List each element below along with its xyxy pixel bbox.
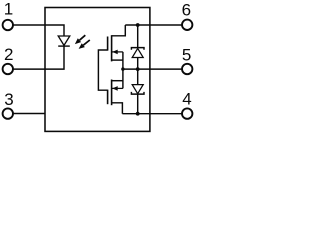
transistor Q1 channel	[111, 35, 113, 61]
svg-text:5: 5	[182, 46, 191, 65]
zener D3 top lead	[137, 69, 139, 85]
junction pin5 wire / zener bus	[136, 67, 140, 71]
light arrow lower	[83, 40, 90, 45]
LED D1 triangle	[58, 36, 70, 45]
Q1 source/body vertical	[122, 52, 124, 69]
transistor Q2 channel	[111, 80, 113, 106]
Q2 body stub with arrow	[112, 87, 123, 89]
svg-text:1: 1	[4, 0, 13, 18]
Q1 source stub	[112, 59, 123, 61]
zener D3 bottom lead	[137, 94, 139, 114]
junction pin4 wire / zener bus	[136, 112, 140, 116]
transistor Q1 gate bar	[107, 37, 109, 51]
junction pin6 wire / zener bus	[136, 23, 140, 27]
pin 3 terminal	[3, 108, 13, 118]
light arrow upper	[80, 35, 86, 40]
LED D1 cathode bar	[58, 45, 70, 47]
zener diode D2 triangle	[132, 48, 143, 57]
zener D2 top lead	[137, 25, 139, 48]
wire pin2 to LED cathode	[13, 46, 64, 69]
zener diode D2 cathode bar	[131, 48, 144, 50]
pin 6 terminal	[182, 20, 192, 30]
Q1 drain stub	[112, 25, 126, 36]
junction pin5 wire / source vertical	[121, 67, 124, 70]
Q2 source stub	[112, 80, 123, 82]
zener diode D3 cathode bar	[131, 92, 144, 94]
Q1 body stub with arrow	[112, 51, 123, 53]
svg-text:3: 3	[4, 90, 13, 109]
wire pin4	[122, 113, 182, 115]
pin 1 terminal	[3, 20, 13, 30]
zener diode D3 triangle	[132, 85, 143, 94]
package outline box	[45, 8, 150, 132]
svg-text:6: 6	[182, 0, 191, 19]
pin 4 terminal	[182, 108, 192, 118]
gate bus	[98, 50, 107, 90]
wire pin3 stub to package	[13, 113, 45, 115]
zener D2 bottom lead	[137, 58, 139, 70]
Q2 drain stub	[112, 103, 123, 114]
Q2 source/body vertical	[122, 69, 124, 88]
svg-text:2: 2	[4, 45, 13, 64]
svg-text:4: 4	[182, 90, 191, 109]
wire pin1 to LED anode	[13, 25, 64, 36]
pin 5 terminal	[182, 64, 192, 74]
wire pin6	[125, 24, 182, 26]
wire pin5	[123, 68, 182, 70]
pin 2 terminal	[3, 64, 13, 74]
transistor Q2 gate bar	[107, 90, 109, 105]
